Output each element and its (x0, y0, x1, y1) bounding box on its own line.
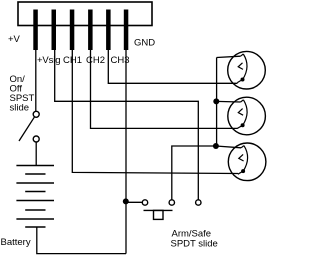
svg-text:+Vsig: +Vsig (37, 55, 61, 66)
svg-text:+V: +V (8, 34, 21, 45)
svg-text:GND: GND (134, 38, 155, 49)
svg-text:CH2: CH2 (86, 55, 105, 66)
switch S1 On/Off SPST: top terminal (33, 111, 39, 117)
switch S2 right terminal (196, 200, 201, 205)
wire +Vsig: pin 2 down, right, down to SPDT right terminal (55, 50, 199, 200)
connector pin 4 (CH2) (88, 10, 93, 51)
wire bus to igniter 2 upper lead (216, 100, 240, 103)
connector pin 1 (+V) (33, 10, 38, 51)
connector pin 6 (GND) (124, 10, 129, 51)
wire bus to igniter 1 upper lead (217, 56, 241, 57)
switch S2 middle terminal (169, 200, 174, 205)
wire igniter common bus (216, 58, 218, 147)
svg-text:Arm/Safe: Arm/Safe (172, 228, 212, 239)
igniter I3 (228, 143, 266, 181)
wire junction to SPDT left terminal (126, 201, 142, 203)
connector pin 3 (CH1) (70, 10, 75, 51)
connector pin 5 (CH3) (106, 10, 111, 51)
switch S2 slider tab (154, 210, 164, 219)
node GND junction (123, 198, 129, 204)
node bus junction B (213, 143, 219, 149)
wire GND vertical (pin 6 down to bottom rail) (125, 50, 127, 254)
wire SPDT middle terminal up to bus junction B (172, 146, 216, 200)
igniter I2 (228, 97, 266, 135)
wire CH1: pin 3 down, right to igniter 3 lower lead (72, 50, 238, 174)
connector J1 body (18, 2, 152, 26)
battery BT1 plates (16, 165, 54, 167)
wire bus junction B to igniter 3 upper lead (216, 146, 241, 148)
svg-text:Battery: Battery (1, 237, 31, 248)
node bus junction A (213, 98, 219, 104)
wire CH3: pin 5 down, right to igniter 1 lower lead (108, 50, 237, 83)
svg-text:SPDT slide: SPDT slide (171, 239, 218, 250)
wire +V pin to SPST top (35, 50, 37, 111)
wire SPST bottom to battery + (35, 142, 37, 166)
wire CH2: pin 4 down, right to igniter 2 lower lead (91, 50, 238, 128)
wire battery - to bottom rail (37, 227, 126, 254)
igniter I1 (228, 51, 266, 89)
switch S2 Arm/Safe SPDT: left terminal (142, 200, 147, 205)
switch S1 lever (19, 117, 34, 141)
switch S1 bottom terminal (33, 136, 39, 142)
svg-text:slide: slide (10, 103, 30, 114)
switch S2 slider bar (144, 209, 173, 211)
connector pin 2 (+Vsig) (52, 10, 57, 51)
svg-text:CH3: CH3 (111, 55, 130, 66)
